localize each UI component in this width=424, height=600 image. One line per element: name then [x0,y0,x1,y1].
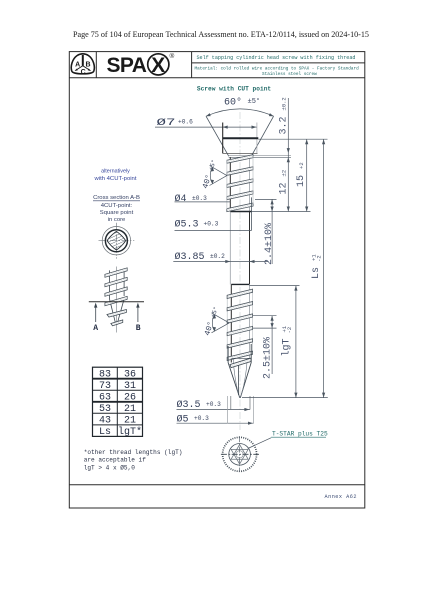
svg-text:Ø3.85: Ø3.85 [175,251,205,263]
svg-text:±0.3: ±0.3 [192,195,207,202]
svg-text:*other thread lengths (lgT): *other thread lengths (lgT) [84,449,183,456]
svg-text:B: B [85,62,90,69]
svg-text:in core: in core [108,217,126,223]
svg-text:Cross section A-B: Cross section A-B [93,195,140,201]
svg-text:Ls: Ls [99,427,111,438]
svg-text:2.4±10%: 2.4±10% [264,223,275,265]
svg-text:alternatively: alternatively [101,168,130,174]
svg-text:63: 63 [99,392,111,403]
svg-text:C: C [81,69,86,76]
svg-text:T-STAR plus T25: T-STAR plus T25 [272,431,328,438]
svg-text:±5°: ±5° [248,97,261,106]
svg-text:Ø5.3: Ø5.3 [175,219,199,231]
svg-text:Self tapping cylindric head s: Self tapping cylindric head screw with f… [197,55,356,61]
svg-text:lgT > 4 x Ø5,0: lgT > 4 x Ø5,0 [84,464,136,471]
svg-text:+0.3: +0.3 [204,220,219,227]
svg-text:21: 21 [124,404,136,415]
svg-text:A: A [75,62,80,69]
svg-text:21: 21 [124,416,136,427]
svg-text:±0.2: ±0.2 [210,253,225,260]
svg-text:73: 73 [99,381,111,392]
svg-text:Ø7: Ø7 [157,117,176,129]
svg-text:A: A [93,324,98,333]
svg-text:60°: 60° [224,97,242,109]
svg-text:Ls +1-2: Ls +1-2 [311,254,323,279]
svg-text:2.5±10%: 2.5±10% [263,337,274,379]
svg-text:B: B [136,324,141,333]
svg-text:lgT*: lgT* [118,426,142,438]
svg-text:Screw with CUT point: Screw with CUT point [197,85,272,92]
svg-text:43: 43 [99,416,111,427]
svg-text:+0.6: +0.6 [178,119,193,126]
svg-text:are acceptable if: are acceptable if [84,457,147,464]
svg-text:83: 83 [99,369,111,380]
svg-text:36: 36 [124,369,136,380]
svg-text:53: 53 [99,404,111,415]
svg-text:X: X [151,54,165,77]
svg-text:Square point: Square point [100,210,134,216]
svg-text:Stainless steel screw: Stainless steel screw [262,72,317,77]
svg-text:lgT +1-2: lgT +1-2 [281,325,294,356]
svg-text:with 4CUT-point: with 4CUT-point [94,176,137,182]
svg-text:Page 75 of 104 of European Tec: Page 75 of 104 of European Technical Ass… [73,30,369,39]
svg-text:®: ® [170,52,175,60]
svg-text:+0.3: +0.3 [194,415,209,422]
svg-text:4CUT-point:: 4CUT-point: [101,203,133,209]
svg-text:+0.3: +0.3 [206,401,221,408]
svg-text:31: 31 [124,381,136,392]
svg-text:SPA: SPA [107,54,147,77]
svg-text:26: 26 [124,392,136,403]
svg-text:Annex A62: Annex A62 [324,494,357,500]
svg-text:Material: cold rolled wire acc: Material: cold rolled wire according to … [195,67,360,72]
svg-text:Ø4: Ø4 [175,193,187,205]
